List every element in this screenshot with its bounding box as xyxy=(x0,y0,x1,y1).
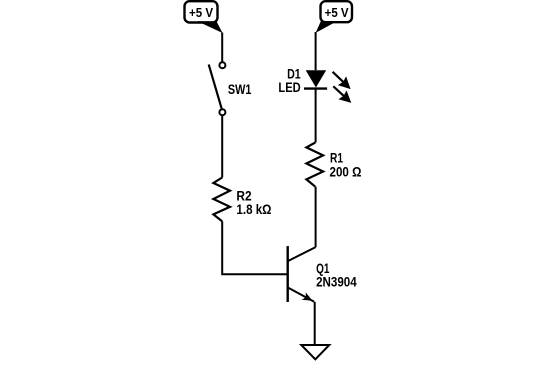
wire emitter to ground xyxy=(314,302,316,345)
wire R2 to base of Q1 xyxy=(222,221,287,274)
power +5V supply V2 (right) xyxy=(316,1,352,33)
svg-text:+5 V: +5 V xyxy=(189,5,213,20)
svg-text:200 Ω: 200 Ω xyxy=(330,165,362,180)
power +5V supply V1 (left) xyxy=(185,1,223,33)
label Q1 2N3904 xyxy=(316,261,357,290)
label R2 value 1.8 kOhm xyxy=(236,188,271,217)
LED D1 xyxy=(304,70,327,88)
svg-text:1.8 kΩ: 1.8 kΩ xyxy=(236,202,271,217)
wire R1 to collector of Q1 xyxy=(315,187,317,248)
svg-text:R1: R1 xyxy=(330,151,343,166)
svg-text:SW1: SW1 xyxy=(228,82,252,97)
svg-text:Q1: Q1 xyxy=(316,261,330,276)
wire right supply to LED xyxy=(315,32,317,70)
wire left supply to switch xyxy=(221,33,223,62)
LED light arrow 2 xyxy=(333,86,351,103)
transistor Q1 2N3904 NPN xyxy=(288,246,316,302)
LED light arrow 1 xyxy=(333,72,351,89)
wire switch to R2 xyxy=(221,116,223,178)
svg-text:2N3904: 2N3904 xyxy=(316,275,357,290)
ground xyxy=(301,345,329,359)
label R1 value 200 Ohm xyxy=(330,151,362,180)
wire LED to R1 xyxy=(315,89,317,143)
svg-text:+5 V: +5 V xyxy=(325,5,349,20)
label D1 LED xyxy=(278,66,301,95)
svg-text:LED: LED xyxy=(278,80,301,95)
resistor R2 xyxy=(213,178,230,222)
switch SW1 xyxy=(209,62,226,115)
resistor R1 xyxy=(306,143,323,187)
